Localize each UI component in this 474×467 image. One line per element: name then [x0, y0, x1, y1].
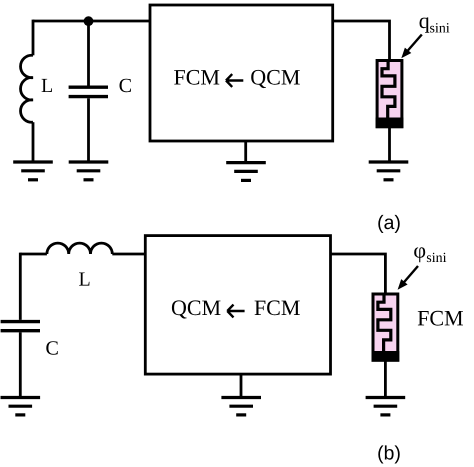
memristor M2 body — [373, 294, 398, 360]
memristor M1 bottom electrode — [376, 118, 404, 129]
wire junction to capacitor top (a) — [87, 21, 90, 86]
wire box to ground (b) — [240, 375, 243, 398]
wire left drop to inductor (a) — [32, 20, 35, 56]
ground under memristor (b) — [366, 398, 406, 415]
wire memristor to ground (a) — [388, 128, 391, 162]
memristor M1 meander — [382, 60, 395, 119]
inductor L1 (vertical coil) — [21, 55, 33, 122]
label C (b) — [46, 341, 57, 354]
label FCM <- QCM — [174, 70, 219, 85]
wire inductor to ground (a) — [32, 122, 35, 162]
wire top rail left (b) — [20, 253, 47, 256]
memristor M2 bottom electrode — [372, 351, 400, 362]
memristor M2 meander — [378, 293, 391, 352]
annotation arrow to M2 — [398, 266, 418, 290]
memristor M1 body — [377, 61, 402, 127]
wire top rail (a) from L to box — [33, 20, 150, 23]
label (a) — [378, 215, 399, 233]
label L (a) — [42, 79, 52, 92]
box U2 QCM<-FCM — [145, 236, 330, 375]
ground under C2 — [1, 398, 41, 415]
wire coil to box (b) — [112, 253, 146, 256]
capacitor C1 plates — [69, 87, 108, 96]
box U1 FCM<-QCM — [150, 5, 333, 141]
label FCM (b) — [418, 311, 463, 326]
annotation arrow to M1 — [401, 35, 422, 59]
label QCM <- FCM — [172, 300, 221, 318]
wire box to memristor (b) — [330, 253, 386, 293]
ground under box (a) — [226, 163, 266, 181]
label phi_sini — [414, 247, 446, 262]
wire memristor to ground (b) — [384, 362, 387, 398]
wire box to ground (a) — [244, 141, 247, 162]
ground under box (b) — [221, 398, 261, 415]
ground under C1 — [69, 162, 109, 180]
wire box to memristor (a) — [332, 20, 390, 60]
label q_sini — [420, 17, 450, 32]
capacitor C2 plates — [1, 322, 40, 331]
label (b) — [378, 445, 399, 463]
label L (b) — [79, 273, 89, 286]
label C (a) — [120, 79, 131, 92]
node junction dot (a) — [84, 16, 94, 26]
ground under memristor (a) — [369, 162, 409, 180]
wire capacitor to ground (a) — [87, 98, 90, 162]
inductor L2 (horizontal coil) — [47, 243, 112, 254]
wire left drop to capacitor (b) — [19, 253, 22, 320]
ground under L1 — [13, 162, 53, 180]
wire capacitor to ground (b) — [19, 332, 22, 397]
